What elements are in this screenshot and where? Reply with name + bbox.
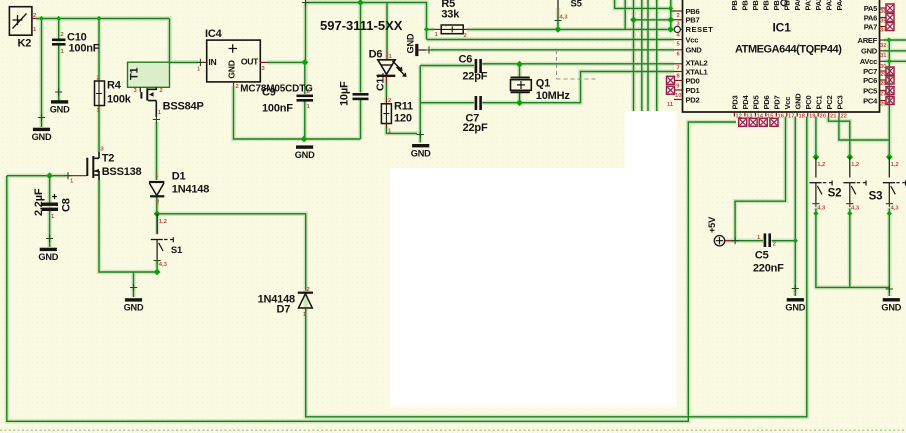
wire +5V to C5: [731, 240, 795, 242]
IC1 top pin labels (cut): [730, 0, 844, 11]
pad PC7: [886, 67, 894, 75]
svg-text:33k: 33k: [441, 9, 460, 21]
svg-text:PC4: PC4: [863, 96, 878, 105]
svg-text:PD3: PD3: [731, 96, 740, 110]
wire left long loop: [7, 122, 736, 421]
IC1 bottom pin stubs: [734, 112, 839, 117]
svg-text:2: 2: [773, 242, 776, 248]
ground (under IC1 gnd pin): [792, 285, 799, 292]
wire aref avcc gnd right: [883, 40, 906, 61]
wire crystal stems: [519, 65, 521, 103]
svg-text:2: 2: [307, 89, 310, 95]
svg-text:PB4: PB4: [741, 0, 750, 11]
ground (under S3 rail): [886, 285, 893, 292]
transistor T1 BSS84P: [129, 67, 204, 123]
svg-text:PB1: PB1: [772, 0, 781, 11]
svg-text:17: 17: [788, 113, 794, 119]
svg-text:D6: D6: [369, 49, 383, 61]
IC1 right pin labels: [858, 4, 879, 106]
svg-text:S3: S3: [869, 191, 883, 203]
svg-text:MC78M05CDTG: MC78M05CDTG: [240, 84, 313, 95]
microcontroller IC1: [683, 0, 880, 112]
wire C9 column: [304, 62, 306, 139]
IC1 left pin numbers: [667, 13, 681, 108]
svg-text:K2: K2: [18, 38, 32, 50]
wire D6-R11 link: [385, 84, 387, 97]
svg-text:R11: R11: [394, 101, 413, 113]
wire C11 column: [360, 3, 362, 140]
svg-text:2: 2: [33, 13, 36, 19]
wire s3 top: [839, 40, 889, 157]
node C11 top junction: [357, 0, 364, 6]
svg-text:GND: GND: [406, 33, 416, 53]
wire D1 to S1 to D7: [157, 197, 306, 291]
pad PC4: [886, 97, 894, 105]
wire gnd pin17 column: [794, 117, 796, 297]
wire switch1 top: [815, 117, 817, 158]
svg-text:C9: C9: [262, 87, 276, 99]
wire R11 to gnd: [386, 128, 420, 143]
wire K2 main rail: [36, 18, 170, 20]
node C5 +5V cross: [732, 237, 739, 244]
svg-text:D7: D7: [277, 304, 291, 316]
wire R4 column: [98, 19, 100, 153]
node K2 gnd junction: [39, 16, 44, 21]
svg-text:22pF: 22pF: [462, 71, 487, 83]
svg-text:ATMEGA644(TQFP44): ATMEGA644(TQFP44): [735, 44, 842, 56]
wire C10 branch: [58, 19, 60, 102]
node IC4 out junction: [302, 59, 309, 66]
svg-text:4,3: 4,3: [851, 206, 860, 212]
wire C8 branch: [49, 176, 51, 247]
svg-text:PD4: PD4: [741, 95, 750, 110]
resistor R4: [95, 76, 132, 115]
wire xtal2 net: [420, 64, 674, 66]
svg-text:PA1: PA1: [804, 0, 813, 11]
frame dotted line bottom: [0, 429, 906, 431]
svg-text:1,2: 1,2: [817, 162, 825, 168]
svg-text:597-3111-5XX: 597-3111-5XX: [320, 18, 403, 33]
svg-text:2: 2: [307, 287, 310, 293]
ground (under R11): [417, 131, 424, 138]
capacitor C10: [52, 32, 100, 56]
svg-text:S5: S5: [571, 0, 583, 10]
IC1 bottom pin numbers: [736, 113, 847, 119]
node Q1 bottom junction: [516, 99, 523, 106]
svg-text:+5V: +5V: [707, 216, 717, 233]
diode D1: [149, 171, 209, 206]
wire polygon T1 supply box: [128, 62, 170, 87]
pad PD5: [749, 118, 757, 126]
node C10 junction: [56, 16, 61, 21]
svg-text:Vcc: Vcc: [783, 97, 792, 110]
crystal Q1: [511, 78, 571, 103]
svg-text:PA3: PA3: [825, 0, 834, 11]
wire D6 column: [386, 3, 388, 52]
svg-text:C5: C5: [755, 250, 769, 262]
svg-text:2: 2: [97, 76, 100, 82]
wire vcc pin16 to +5V: [735, 117, 785, 241]
pad PD6: [759, 118, 767, 126]
node switch1 bottom dot: [813, 211, 818, 216]
node S2 top junction: [846, 154, 853, 161]
svg-text:IC4: IC4: [205, 28, 223, 40]
svg-text:2: 2: [156, 200, 159, 206]
svg-text:PC1: PC1: [815, 95, 824, 110]
svg-text:PD6: PD6: [762, 96, 771, 110]
wire top rail to out: [305, 3, 307, 63]
node C5 right dot: [793, 238, 798, 243]
svg-text:PA4: PA4: [835, 0, 844, 11]
svg-text:4,3: 4,3: [817, 206, 826, 212]
pad PA5: [886, 4, 894, 12]
capacitor C8: [33, 188, 73, 220]
LED D6: [369, 49, 407, 85]
svg-text:PC0: PC0: [804, 96, 813, 110]
IC1 right pin stubs: [880, 8, 886, 101]
svg-text:31: 31: [880, 53, 887, 59]
node AREF junction: [886, 37, 891, 42]
resistor R11: [381, 97, 413, 135]
node PB7 pin junction: [667, 16, 674, 23]
svg-text:10: 10: [675, 93, 681, 99]
wire top rail: [306, 3, 427, 40]
svg-text:PA6: PA6: [864, 13, 877, 22]
svg-text:120: 120: [394, 113, 412, 125]
svg-text:PC3: PC3: [836, 96, 845, 110]
svg-text:18: 18: [799, 113, 806, 119]
svg-text:PA5: PA5: [864, 4, 878, 13]
ground (under K2): [38, 114, 45, 121]
ground (under C10): [55, 88, 62, 95]
svg-text:10µF: 10µF: [339, 81, 351, 106]
switch S3: [869, 157, 906, 212]
wire pb7 row: [634, 19, 675, 21]
ground (under C8): [46, 235, 53, 242]
svg-text:T1: T1: [129, 67, 141, 80]
svg-text:22: 22: [841, 113, 847, 119]
svg-text:21: 21: [830, 113, 837, 119]
node R5 left junction: [424, 27, 429, 32]
svg-text:PA0: PA0: [793, 0, 802, 11]
pad PD4: [739, 118, 747, 126]
wire s2 top: [828, 117, 849, 158]
svg-text:100nF: 100nF: [69, 43, 100, 55]
svg-text:7: 7: [677, 66, 680, 72]
wire T1 drain to D1: [156, 122, 158, 180]
node S2 bottom dot: [847, 211, 852, 216]
pad PA7: [886, 23, 894, 31]
svg-text:2: 2: [160, 88, 163, 94]
capacitor C9: [262, 87, 313, 115]
ground (under C9): [295, 145, 315, 159]
node Q1 top junction: [516, 61, 523, 68]
crystal case dashed line: [557, 50, 598, 79]
pad PA6: [886, 14, 894, 22]
wire vcc row: [427, 39, 675, 41]
svg-text:20: 20: [820, 113, 826, 119]
svg-text:PC5: PC5: [863, 86, 878, 95]
wire T2 source to S1 junction: [99, 180, 157, 272]
capacitor C5: [753, 233, 784, 274]
svg-text:S2: S2: [828, 188, 842, 200]
IC1 RESET bubble: [674, 26, 680, 32]
svg-text:GND: GND: [686, 46, 703, 55]
wire D7 to bottom rail A: [306, 117, 807, 417]
node C8 junction: [46, 172, 53, 179]
capacitor C7: [463, 96, 488, 134]
wire xtal1 net: [420, 72, 674, 103]
svg-text:PD1: PD1: [686, 86, 701, 95]
svg-text:PB6: PB6: [686, 7, 700, 16]
wire IC4 out: [267, 61, 306, 63]
svg-text:2: 2: [677, 13, 680, 19]
svg-text:PD0: PD0: [686, 76, 700, 85]
resistor R5: [434, 0, 467, 39]
svg-text:AREF: AREF: [858, 36, 878, 45]
svg-text:RESET: RESET: [686, 25, 714, 34]
svg-text:IC1: IC1: [773, 21, 792, 35]
switch S5 (cut at top): [554, 0, 582, 24]
svg-text:11: 11: [667, 102, 674, 108]
IC1 bottom pin labels (rotated): [731, 93, 845, 110]
svg-text:4,3: 4,3: [159, 262, 168, 268]
capacitor C6: [459, 54, 488, 83]
regulator IC4: [197, 28, 313, 95]
svg-text:220nF: 220nF: [753, 263, 784, 275]
svg-text:BSS84P: BSS84P: [163, 101, 204, 113]
node C9 gnd junction: [301, 136, 308, 143]
wire IC4 gnd to rail: [234, 86, 361, 139]
node S3 bottom dot: [887, 211, 892, 216]
svg-text:BSS138: BSS138: [102, 166, 142, 178]
node AVcc junction: [887, 59, 892, 64]
svg-text:D1: D1: [172, 171, 186, 183]
pad PD7: [770, 118, 778, 126]
switch S1: [151, 214, 183, 268]
node RESET pin junction: [667, 26, 674, 33]
svg-text:1,2: 1,2: [851, 162, 859, 168]
node S5 junction: [555, 26, 562, 33]
svg-text:XTAL2: XTAL2: [686, 59, 708, 68]
svg-text:4,3: 4,3: [891, 206, 900, 212]
svg-text:10MHz: 10MHz: [536, 90, 571, 102]
svg-text:PD7: PD7: [773, 96, 782, 110]
node switch1 top junction: [813, 154, 820, 161]
circle glyph on IC1 top edge: [781, 0, 787, 6]
svg-text:PD5: PD5: [752, 95, 761, 110]
pad PC6: [886, 76, 894, 84]
svg-text:PB7: PB7: [686, 16, 700, 25]
svg-text:PD2: PD2: [686, 95, 700, 104]
svg-text:1N4148: 1N4148: [172, 184, 209, 196]
svg-text:XTAL1: XTAL1: [686, 67, 709, 76]
node top rail cross: [302, 0, 309, 6]
ground (under S1): [130, 284, 137, 291]
svg-text:PB2: PB2: [762, 0, 771, 11]
node S1 top junction: [154, 210, 161, 217]
IC1 left pin labels: [686, 7, 714, 105]
wire IC4 in: [170, 61, 199, 63]
svg-text:22pF: 22pF: [463, 122, 488, 134]
wire T1 box drop: [169, 19, 171, 63]
node PB7 bus junction: [630, 16, 637, 23]
capacitor C11: [339, 73, 387, 106]
switch SW (pc1): [810, 157, 833, 212]
svg-text:T2: T2: [102, 153, 115, 165]
svg-text:2: 2: [61, 32, 64, 38]
svg-text:OUT: OUT: [241, 57, 259, 67]
svg-text:Vcc: Vcc: [686, 35, 699, 44]
svg-text:100k: 100k: [107, 94, 132, 106]
wire switch bottoms rail: [816, 209, 889, 297]
white erased region (large): [390, 168, 677, 408]
svg-text:AVcc: AVcc: [860, 57, 877, 66]
svg-text:PC2: PC2: [825, 96, 834, 110]
svg-text:IN: IN: [208, 57, 216, 67]
wire gnd row: [431, 49, 674, 51]
wire pb6 row: [615, 0, 674, 11]
svg-text:S1: S1: [171, 245, 183, 256]
svg-text:2,2µF: 2,2µF: [33, 188, 45, 216]
switch S2: [828, 157, 866, 212]
svg-text:2: 2: [464, 33, 467, 39]
svg-text:19: 19: [809, 113, 816, 119]
svg-text:1,2: 1,2: [891, 162, 899, 168]
svg-text:PB5: PB5: [730, 0, 739, 11]
pad PC5: [886, 87, 894, 95]
svg-text:1,2: 1,2: [159, 219, 167, 225]
pad PD1: [667, 86, 675, 94]
svg-text:PB3: PB3: [751, 0, 760, 11]
svg-text:4,3: 4,3: [560, 15, 569, 21]
svg-text:PA7: PA7: [864, 22, 877, 31]
wire reset net: [427, 23, 668, 29]
svg-text:C8: C8: [61, 198, 73, 212]
bus verticals: [625, 0, 671, 111]
wire K2 gnd branch: [41, 19, 43, 128]
diode D7: [258, 287, 313, 318]
node S3 top junction: [886, 154, 893, 161]
supply +5V: [707, 216, 731, 246]
svg-text:PC6: PC6: [863, 76, 877, 85]
ground (rotated, gnd row): [406, 33, 433, 56]
svg-text:PC7: PC7: [863, 67, 877, 76]
IC1 left pin stubs: [674, 11, 683, 100]
connector K2: [9, 7, 37, 50]
svg-text:Q1: Q1: [536, 78, 550, 90]
svg-text:2: 2: [236, 84, 239, 90]
svg-text:100nF: 100nF: [262, 103, 293, 115]
node R4 junction: [96, 16, 101, 21]
svg-text:C6: C6: [459, 54, 473, 66]
wire gnd riser to C6 C7: [419, 66, 421, 134]
node PB6 pin dot: [668, 6, 673, 11]
wire S1 gnd stem: [133, 272, 135, 297]
svg-text:PA2: PA2: [814, 0, 823, 11]
svg-text:32: 32: [880, 43, 886, 49]
svg-text:GND: GND: [861, 47, 878, 56]
svg-text:GND: GND: [227, 60, 237, 78]
svg-text:R4: R4: [107, 80, 122, 92]
IC1 right pin numbers: [880, 9, 887, 108]
transistor T2 BSS138: [64, 147, 141, 185]
node S1 bottom junction: [154, 269, 161, 276]
pad PD0: [667, 76, 675, 84]
white erased region (upper notch): [625, 111, 677, 171]
svg-text:GND: GND: [794, 93, 803, 110]
